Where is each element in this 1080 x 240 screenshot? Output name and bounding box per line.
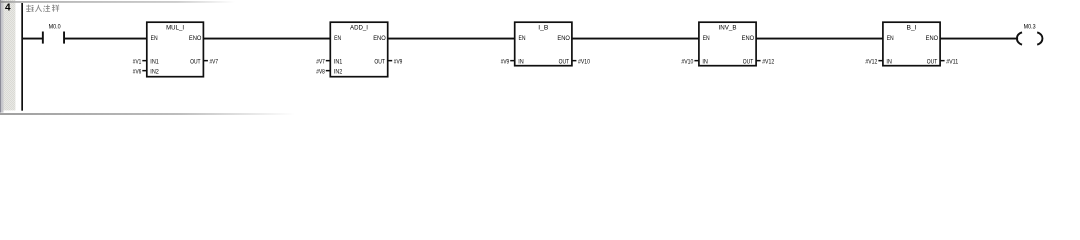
wire: I_B to INV_B	[572, 38, 699, 40]
function block U1 MUL_I	[147, 22, 204, 76]
svg-text:M0.0: M0.0	[49, 23, 61, 30]
coil right arc	[1037, 32, 1042, 44]
function block U2 ADD_I	[330, 22, 387, 76]
svg-text:EN: EN	[334, 35, 341, 42]
svg-text:#V10: #V10	[578, 58, 590, 65]
svg-text:ENO: ENO	[557, 35, 570, 42]
svg-text:OUT: OUT	[190, 58, 201, 65]
svg-text:EN: EN	[887, 35, 894, 42]
function block U5 B_I	[883, 22, 940, 65]
svg-text:#V7: #V7	[316, 58, 325, 65]
pin tick IN1	[142, 60, 147, 62]
contact M0.0 left bar	[42, 32, 44, 44]
wire: B_I to coil	[940, 38, 1018, 40]
pin tick IN	[510, 60, 515, 62]
pin tick OUT	[756, 60, 761, 62]
top separator line	[0, 1, 235, 3]
svg-text:IN: IN	[518, 58, 524, 65]
svg-text:#V11: #V11	[946, 58, 958, 65]
svg-text:MUL_I: MUL_I	[166, 25, 184, 32]
svg-text:IN: IN	[886, 58, 892, 65]
char 注	[43, 5, 50, 12]
svg-text:#V12: #V12	[865, 58, 877, 65]
svg-text:IN2: IN2	[334, 68, 343, 75]
char 输	[26, 5, 34, 12]
pin tick IN2	[326, 70, 331, 72]
svg-text:ENO: ENO	[742, 35, 755, 42]
svg-text:4: 4	[5, 3, 11, 14]
svg-text:ADD_I: ADD_I	[350, 25, 368, 32]
svg-text:EN: EN	[519, 35, 526, 42]
svg-text:IN1: IN1	[334, 58, 343, 65]
svg-text:#V9: #V9	[501, 58, 510, 65]
svg-text:ENO: ENO	[926, 35, 939, 42]
contact M0.0 right bar	[63, 32, 65, 44]
svg-text:OUT: OUT	[743, 58, 754, 65]
wire: contact to MUL_I box	[65, 38, 147, 40]
svg-text:IN2: IN2	[150, 68, 159, 75]
svg-text:EN: EN	[703, 35, 710, 42]
svg-text:#V6: #V6	[133, 68, 142, 75]
wire: INV_B to B_I	[756, 38, 883, 40]
svg-text:#V12: #V12	[762, 58, 774, 65]
wire: rail to contact	[22, 38, 43, 40]
svg-text:M0.3: M0.3	[1024, 23, 1036, 30]
svg-text:I_B: I_B	[538, 25, 548, 32]
svg-text:OUT: OUT	[559, 58, 570, 65]
left inner strip	[1, 0, 3, 113]
pin tick IN2	[142, 70, 147, 72]
pin tick OUT	[572, 60, 577, 62]
pin tick IN	[694, 60, 699, 62]
svg-text:ENO: ENO	[189, 35, 202, 42]
svg-text:#V8: #V8	[316, 68, 325, 75]
svg-text:OUT: OUT	[374, 58, 385, 65]
left power rail	[21, 3, 23, 111]
svg-text:ENO: ENO	[373, 35, 386, 42]
char 释	[52, 5, 59, 12]
svg-text:INV_B: INV_B	[719, 25, 737, 32]
wire: ADD_I to I_B	[388, 38, 515, 40]
coil left arc	[1017, 32, 1022, 44]
svg-text:OUT: OUT	[927, 58, 938, 65]
svg-text:#V1: #V1	[133, 58, 142, 65]
pin tick OUT	[388, 60, 393, 62]
function block U4 INV_B	[699, 22, 756, 65]
network comment (Chinese: 输入注释) drawn as strokes	[26, 5, 59, 12]
pin tick OUT	[203, 60, 208, 62]
pin tick IN	[878, 60, 883, 62]
network number gutter	[4, 0, 16, 110]
svg-text:#V7: #V7	[210, 58, 219, 65]
svg-text:#V10: #V10	[681, 58, 693, 65]
svg-text:IN: IN	[702, 58, 708, 65]
left window edge strip	[0, 0, 1, 113]
pin tick IN1	[326, 60, 331, 62]
wire: MUL_I to ADD_I	[204, 38, 330, 40]
coil M0.3	[1017, 32, 1043, 44]
bottom separator line	[0, 113, 295, 115]
svg-text:IN1: IN1	[150, 58, 159, 65]
svg-text:EN: EN	[151, 35, 158, 42]
char 入	[35, 5, 41, 12]
svg-text:B_I: B_I	[907, 25, 917, 32]
pin tick OUT	[940, 60, 945, 62]
svg-text:#V9: #V9	[394, 58, 403, 65]
function block U3 I_B	[515, 22, 572, 65]
